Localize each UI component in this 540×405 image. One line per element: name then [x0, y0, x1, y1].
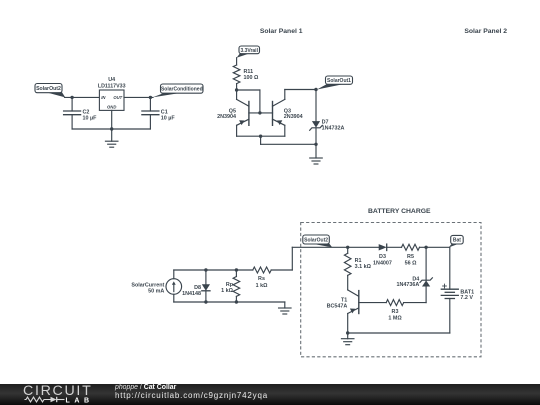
resistor Rp	[233, 270, 240, 302]
transistor Q3 2N3904	[273, 90, 285, 137]
flag SolarOut2 (regulator input)	[35, 84, 65, 98]
svg-text:Solar Panel 2: Solar Panel 2	[464, 28, 507, 35]
wire emitter rail	[237, 135, 285, 137]
svg-text:50 mA: 50 mA	[148, 289, 164, 295]
capacitor C2	[64, 97, 81, 129]
flag SolarOut1	[317, 76, 353, 90]
node D8 top junction	[204, 268, 207, 271]
svg-text:D3: D3	[379, 254, 386, 260]
flag 3.3Vrail	[237, 46, 260, 58]
wire D3 to R5	[387, 246, 402, 248]
svg-text:1N4732A: 1N4732A	[322, 126, 345, 132]
svg-text:Rs: Rs	[258, 276, 265, 282]
CircuitLab logo schematic squiggle and LAB	[24, 395, 96, 405]
ground (battery charge)	[341, 339, 354, 345]
svg-text:R11: R11	[244, 69, 254, 75]
node junction C2/input	[70, 96, 73, 99]
wire Q5-Q3 base rail	[249, 112, 273, 114]
resistor R5	[402, 244, 420, 250]
CircuitLab logo wordmark	[23, 383, 92, 399]
node R11/Q5 collector junction	[235, 88, 238, 91]
resistor R11	[233, 65, 240, 84]
svg-text:Bat: Bat	[453, 238, 461, 244]
battery BAT1 7.2 V	[441, 247, 458, 333]
node Rp top junction	[235, 268, 238, 271]
wire collector-base tie vertical	[259, 90, 261, 113]
wire riser up	[291, 247, 293, 270]
svg-text:Rp: Rp	[226, 282, 234, 288]
svg-text:2N3904: 2N3904	[284, 114, 303, 120]
svg-text:R3: R3	[392, 309, 399, 315]
svg-text:U4: U4	[108, 77, 115, 83]
svg-text:3.1 kΩ: 3.1 kΩ	[355, 264, 372, 270]
svg-text:GND: GND	[107, 104, 116, 109]
footer project title	[115, 384, 176, 391]
node D4 top junction	[424, 246, 427, 249]
node emitter rail junction	[259, 135, 262, 138]
svg-text:3.3Vrail: 3.3Vrail	[240, 48, 258, 54]
resistor R3	[386, 300, 403, 306]
footer bar	[0, 384, 540, 405]
svg-text:BATTERY CHARGE: BATTERY CHARGE	[368, 208, 431, 215]
svg-text:1N4007: 1N4007	[373, 260, 392, 266]
diode D4 1N4736A zener	[420, 247, 433, 302]
svg-text:OUT: OUT	[113, 95, 122, 100]
wire source top	[173, 270, 175, 279]
svg-text:2N3904: 2N3904	[217, 114, 236, 120]
svg-text:56 Ω: 56 Ω	[405, 260, 417, 266]
transistor Q5 2N3904	[237, 90, 249, 136]
diode D3 1N4007	[379, 244, 387, 250]
wire top rail to D3	[348, 246, 379, 248]
wire D7 to ground	[315, 144, 317, 158]
wire SolarOut2 to U4 IN	[65, 96, 100, 98]
svg-text:10 µF: 10 µF	[83, 116, 98, 122]
svg-text:D7: D7	[322, 119, 329, 125]
flag SolarOut2 (charge input)	[303, 235, 332, 247]
ground (regulator)	[105, 141, 118, 147]
wire bottom rail	[174, 301, 285, 303]
node junction C1/output	[149, 96, 152, 99]
dashed enclosure BATTERY CHARGE	[301, 223, 481, 357]
svg-text:BC547A: BC547A	[327, 304, 348, 310]
svg-text:R1: R1	[355, 258, 362, 264]
wire Rs to riser	[271, 269, 292, 271]
transistor T1 BC547A	[348, 290, 387, 333]
wire U4 GND stem	[111, 110, 113, 141]
node D8 bottom junction	[204, 300, 207, 303]
svg-text:1 MΩ: 1 MΩ	[388, 315, 402, 321]
flag Bat	[449, 235, 463, 247]
wire regulator bottom rail	[72, 128, 150, 130]
wire R5 to Bat node	[420, 246, 450, 248]
svg-text:R5: R5	[407, 254, 414, 260]
capacitor C1	[142, 97, 159, 129]
node D7 bottom junction	[314, 143, 317, 146]
svg-text:SolarOut2: SolarOut2	[36, 86, 61, 92]
node Rp bottom junction	[235, 300, 238, 303]
wire top rail left	[174, 269, 253, 271]
diode D7 1N4732A zener	[310, 90, 323, 145]
wire to D7 bottom	[261, 143, 316, 145]
wire emitter rail drop	[260, 136, 262, 144]
ground (source network)	[279, 308, 292, 314]
wire U4 OUT to SolarConditioned	[124, 96, 153, 98]
svg-text:7.2 V: 7.2 V	[460, 295, 473, 301]
svg-text:1 kΩ: 1 kΩ	[256, 283, 268, 289]
svg-text:C1: C1	[161, 109, 168, 115]
wire charge bottom rail	[348, 332, 450, 334]
svg-text:10 µF: 10 µF	[161, 116, 176, 122]
svg-text:D8: D8	[194, 285, 201, 291]
svg-text:C2: C2	[83, 109, 90, 115]
ground (solar panel 1)	[310, 158, 323, 164]
svg-text:T1: T1	[341, 297, 347, 303]
wire 3.3Vrail to R11	[236, 58, 238, 65]
op-amp U4 LD1117V33 regulator body	[99, 90, 124, 110]
svg-text:1N4148: 1N4148	[182, 291, 201, 297]
current source SolarCurrent 50 mA	[166, 279, 182, 295]
svg-text:100 Ω: 100 Ω	[244, 75, 259, 81]
svg-text:1N4736A: 1N4736A	[397, 282, 420, 288]
svg-text:SolarCurrent: SolarCurrent	[131, 282, 164, 288]
svg-text:1 kΩ: 1 kΩ	[221, 288, 233, 294]
footer URL	[115, 391, 268, 400]
svg-text:Solar Panel 1: Solar Panel 1	[260, 28, 303, 35]
wire collector-base tie horizontal	[237, 89, 260, 91]
svg-text:LD1117V33: LD1117V33	[98, 84, 126, 90]
resistor R1	[344, 247, 351, 290]
wire R11 to Q5 collector node	[236, 84, 238, 90]
svg-text:SolarOut1: SolarOut1	[327, 78, 351, 84]
svg-text:SolarConditioned: SolarConditioned	[161, 87, 203, 93]
wire source bottom	[173, 294, 175, 302]
node emitter/ground junction	[346, 331, 349, 334]
wire T1 emitter to ground	[347, 333, 349, 339]
wire to ground stem	[284, 302, 286, 308]
flag SolarConditioned	[153, 84, 204, 97]
diode D8 1N4148	[202, 270, 210, 302]
wire R3 to D4 corner	[404, 302, 427, 304]
resistor Rs	[253, 267, 271, 273]
svg-text:SolarOut2: SolarOut2	[304, 237, 328, 243]
node SolarOut1 junction	[314, 88, 317, 91]
svg-text:LAB: LAB	[66, 397, 94, 404]
node R1 top junction	[346, 246, 349, 249]
wire into box	[292, 246, 347, 248]
node base junction	[258, 111, 261, 114]
node junction GND rail	[110, 127, 113, 130]
wire Q3 collector to SolarOut1 node	[285, 89, 316, 91]
